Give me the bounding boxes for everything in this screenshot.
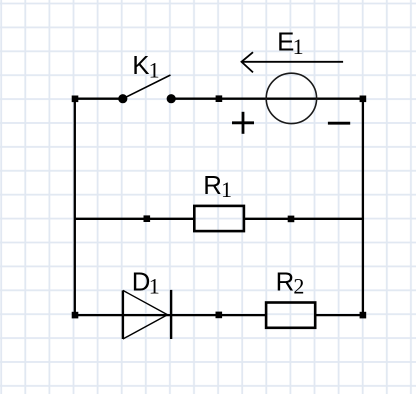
svg-text:1: 1: [149, 57, 160, 82]
svg-text:1: 1: [149, 274, 160, 299]
node bottom-mid: [216, 312, 223, 319]
wire bottom-right segment: [315, 314, 363, 316]
label K1: [132, 52, 159, 82]
svg-text:1: 1: [293, 34, 304, 59]
diode D1: [123, 290, 171, 339]
svg-text:K: K: [132, 52, 149, 80]
label D1: [132, 268, 160, 298]
wire top-left segment (node to switch): [75, 98, 123, 100]
wire top-right segment (switch to right node, through E1): [171, 98, 363, 100]
node mid-right: [288, 216, 295, 223]
node top-right: [360, 96, 367, 103]
label R1: [203, 172, 232, 202]
node top-mid: [216, 95, 223, 102]
node top-left: [72, 96, 79, 103]
node mid-left: [144, 215, 151, 222]
switch K1: [118, 75, 176, 103]
minus sign: [328, 122, 350, 125]
label R2: [276, 268, 305, 298]
plus sign: [232, 112, 254, 134]
node bottom-left: [72, 312, 79, 319]
node bottom-right: [360, 312, 367, 319]
label E1: [277, 29, 304, 59]
wire right vertical: [362, 99, 364, 315]
svg-text:R: R: [276, 268, 295, 296]
resistor R2: [266, 303, 315, 328]
current arrow: [242, 52, 344, 72]
wire middle-left segment: [75, 218, 195, 220]
voltage source E1: [266, 73, 316, 123]
wire middle-right segment: [244, 218, 363, 220]
wire bottom-left segment (through diode D1): [75, 314, 266, 316]
wire left vertical: [74, 99, 76, 315]
svg-text:2: 2: [293, 273, 304, 298]
resistor R1: [194, 206, 244, 231]
svg-text:1: 1: [221, 177, 232, 202]
svg-text:R: R: [203, 172, 222, 200]
svg-text:D: D: [132, 268, 151, 296]
